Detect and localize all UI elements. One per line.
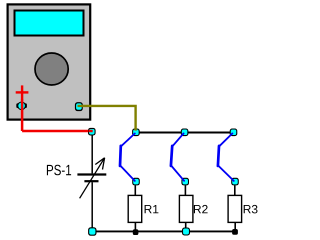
node N3 (top of column 3) [230, 129, 238, 137]
switch wire SW3 [218, 133, 234, 181]
switch wire SW2 [171, 133, 184, 180]
wire node N2b to R2 [184, 185, 186, 195]
label R1 [145, 205, 159, 213]
node N1 (top of column 1) [132, 129, 140, 137]
wire olive stub over node N1 [134, 128, 136, 130]
multimeter knob [35, 53, 68, 85]
wire R1 to bottom bus [134, 222, 136, 231]
wire from node A down to PS-1 [91, 136, 93, 174]
junction dot J1 [133, 229, 139, 235]
wire R2 to bottom bus [185, 222, 187, 231]
resistor R2 [179, 195, 193, 222]
node B [88, 227, 96, 235]
node N3b (above R3) [231, 178, 239, 186]
top bus wire [136, 132, 234, 134]
PS-1 variable arrow [80, 158, 105, 199]
multimeter M1 body [8, 4, 91, 119]
wire red from terminal T1 to node A [22, 99, 92, 131]
node N2c (below R2 on bus) [182, 228, 190, 236]
junction dot J2 [232, 229, 238, 235]
terminal T1 (positive) [16, 102, 27, 111]
bottom bus wire [92, 230, 235, 232]
label PS-1 [47, 165, 71, 176]
wire node N3b to R3 [234, 185, 236, 195]
node N2 (top of column 2) [181, 129, 189, 137]
terminal T2 (negative) [75, 102, 83, 111]
wire olive from terminal T2 to node N1 [78, 106, 136, 129]
label R3 [244, 205, 258, 214]
label R2 [194, 205, 208, 213]
node N1b (above R1) [132, 178, 140, 186]
resistor R1 [128, 195, 142, 222]
multimeter display [15, 11, 84, 36]
switch wire SW1 [120, 134, 135, 181]
wire node N1b to R1 [134, 185, 136, 195]
wire R3 to bottom bus [234, 222, 236, 231]
polarity + mark [16, 85, 29, 99]
node N2b (above R2) [181, 178, 189, 186]
resistor R3 [228, 195, 242, 222]
node A [88, 128, 96, 136]
wire from PS-1 down to node B [91, 182, 93, 231]
power supply PS-1 plates [77, 175, 106, 182]
wire red stub over node A [89, 130, 93, 133]
